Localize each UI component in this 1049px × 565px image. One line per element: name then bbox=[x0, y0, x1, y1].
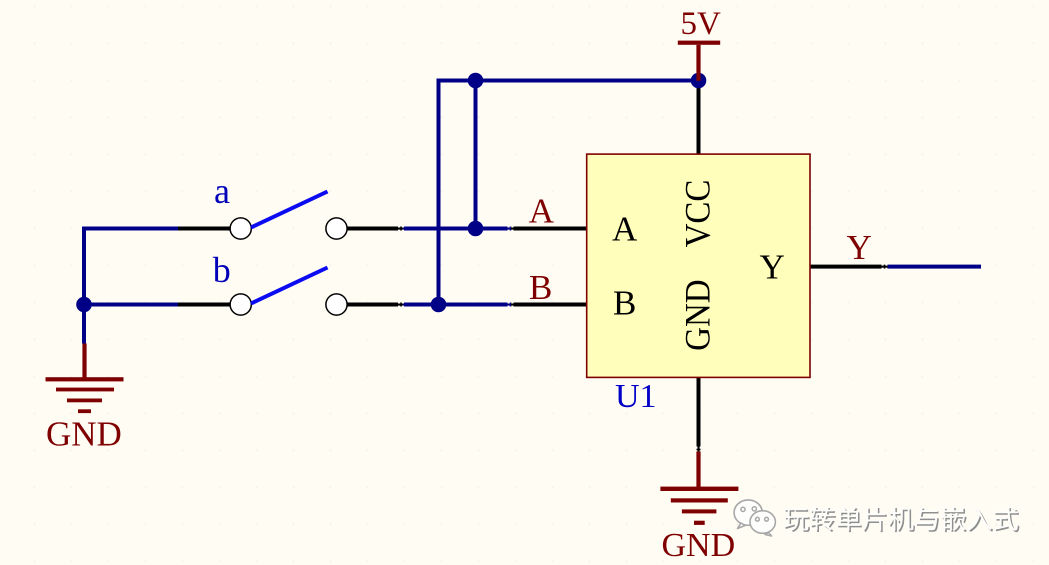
junction: row B / left vertical bbox=[76, 297, 92, 313]
switch b right contact circle bbox=[326, 294, 347, 315]
wire: row B left horizontal bbox=[82, 303, 178, 307]
ground symbol bottom: bar 1 bbox=[660, 487, 738, 491]
ground symbol left: stem bbox=[82, 344, 86, 379]
junction: top bus / vertical #2 bbox=[468, 73, 484, 89]
pin-end break marks pin Y bbox=[882, 263, 888, 270]
switch a blade bbox=[251, 192, 328, 228]
svg-text:GND: GND bbox=[662, 527, 736, 564]
ground symbol left: bar 3 bbox=[67, 399, 102, 403]
svg-text:Y: Y bbox=[847, 228, 872, 267]
power symbol 5V: bar bbox=[678, 41, 720, 45]
watermark logo big bubble eyes bbox=[741, 507, 757, 512]
ground symbol left: bar 2 bbox=[56, 388, 114, 392]
ground symbol bottom: bar 4 bbox=[694, 521, 705, 525]
svg-text:GND: GND bbox=[46, 415, 122, 454]
svg-text:B: B bbox=[613, 284, 636, 323]
ground symbol bottom: bar 2 bbox=[671, 498, 728, 502]
pin-end break marks pin GND bottom bbox=[695, 447, 702, 453]
junction: top bus / 5V / VCC pin bbox=[691, 73, 707, 89]
svg-text:GND: GND bbox=[678, 279, 717, 351]
svg-text:b: b bbox=[213, 250, 231, 290]
watermark logo big bubble bbox=[734, 500, 762, 529]
svg-text:Y: Y bbox=[760, 248, 785, 287]
svg-text:U1: U1 bbox=[615, 378, 657, 415]
pin: switch b left lead bbox=[178, 303, 231, 307]
svg-text:A: A bbox=[612, 210, 638, 249]
pin-end break marks pin B bbox=[508, 301, 514, 308]
junction: row B / vertical #1 bbox=[431, 297, 447, 313]
wire: Y output bbox=[887, 265, 981, 269]
pin: switch a right lead bbox=[346, 227, 403, 231]
svg-text:B: B bbox=[529, 268, 552, 307]
svg-text:a: a bbox=[214, 171, 230, 211]
power symbol 5V: stem bbox=[696, 45, 700, 81]
ground symbol left: bar 4 bbox=[78, 409, 91, 413]
switch b left contact circle bbox=[230, 294, 251, 315]
wire: row A middle horizontal (switch a output to pin A) bbox=[403, 227, 511, 231]
pin B of U1 bbox=[511, 303, 588, 307]
watermark text 玩转单片机与嵌入式 bbox=[784, 507, 1020, 533]
pin A of U1 bbox=[511, 227, 588, 231]
ground symbol bottom: stem bbox=[696, 452, 700, 489]
wire: row B middle horizontal (switch b output to pin B) bbox=[403, 303, 511, 307]
svg-text:A: A bbox=[529, 191, 555, 230]
wire: row A left horizontal bbox=[82, 227, 178, 231]
switch a left contact circle bbox=[230, 218, 251, 239]
pin: switch a left lead bbox=[178, 227, 231, 231]
pin-end break marks row B bbox=[398, 301, 404, 308]
switch b blade bbox=[251, 268, 328, 304]
svg-text:VCC: VCC bbox=[678, 180, 717, 248]
ground symbol left: bar 1 bbox=[46, 377, 124, 381]
switch a right contact circle bbox=[326, 218, 347, 239]
junction: row A / vertical #2 bbox=[468, 221, 484, 237]
svg-text:5V: 5V bbox=[681, 6, 722, 42]
watermark logo small bubble bbox=[750, 511, 775, 536]
pin GND of U1 (vertical) bbox=[697, 378, 701, 452]
IC U1 body bbox=[587, 154, 810, 377]
pin Y of U1 bbox=[809, 265, 888, 269]
wire: left vertical from row A down to GND stem bbox=[82, 227, 86, 344]
ground symbol bottom: bar 3 bbox=[682, 509, 717, 513]
pin: switch b right lead bbox=[346, 303, 403, 307]
pin-end break marks pin A bbox=[508, 225, 514, 232]
pin VCC of U1 (vertical) bbox=[697, 81, 701, 156]
wire: vertical drop from top bus junction to row A bbox=[474, 79, 478, 231]
watermark logo small bubble eyes bbox=[756, 517, 769, 521]
pin-end break marks row A bbox=[398, 225, 404, 232]
wire: vertical drop from top bus corner to row B bbox=[437, 79, 441, 307]
wire: top bus from corner to 5V junction bbox=[437, 79, 701, 83]
